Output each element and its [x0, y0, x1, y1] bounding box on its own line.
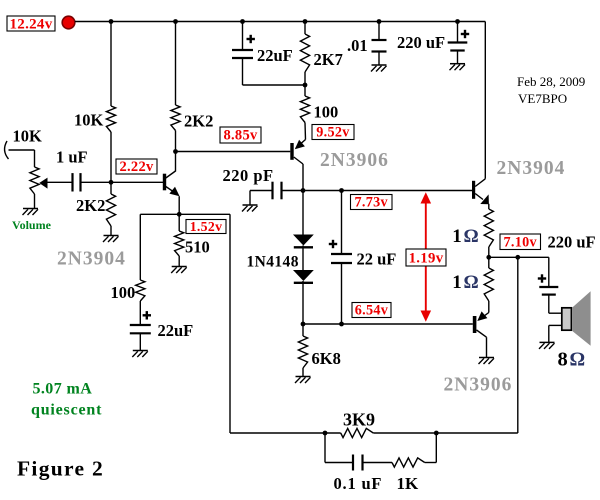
- wire 220uF to ground: [457, 51, 459, 64]
- svg-text:1.19v: 1.19v: [409, 250, 444, 266]
- svg-text:2N3906: 2N3906: [320, 150, 389, 171]
- wire 2K2 lower top lead: [110, 182, 112, 194]
- diode 1N4148 D1: [293, 235, 314, 246]
- wire Q1 emitter lead: [178, 196, 180, 214]
- wire emitter node right: [179, 213, 230, 215]
- wire 6K8 top lead: [302, 324, 304, 336]
- junction 2K7/100/22uF: [303, 83, 308, 88]
- svg-text:7.10v: 7.10v: [504, 234, 538, 250]
- svg-text:2K2: 2K2: [76, 196, 105, 215]
- wire Q3 collector to rail: [484, 22, 486, 179]
- resistor 2K2 (base bias lower): [106, 194, 115, 226]
- svg-text:.01: .01: [347, 36, 368, 55]
- svg-text:1: 1: [452, 272, 462, 293]
- resistor 100 (Q1 emitter bypass): [136, 280, 145, 301]
- svg-text:Figure 2: Figure 2: [17, 457, 104, 481]
- transistor Q2 base bar: [290, 143, 293, 160]
- capacitor 1uF coupling: [71, 173, 73, 191]
- svg-text:Volume: Volume: [12, 218, 52, 232]
- svg-text:Feb 28, 2009: Feb 28, 2009: [517, 74, 585, 89]
- diode 1N4148 D2: [293, 270, 314, 281]
- resistor 2K7: [300, 34, 309, 72]
- plus 22uF center: [329, 243, 337, 245]
- voltage label 1.52v: [186, 220, 226, 234]
- junction feedback left: [323, 431, 328, 436]
- svg-text:5.07 mA: 5.07 mA: [33, 381, 93, 398]
- transistor Q3 base bar: [472, 181, 475, 199]
- voltage label 1.19v: [406, 249, 446, 266]
- junction Q1 emitter node: [177, 212, 182, 217]
- ground 2K2 lower: [104, 235, 119, 237]
- svg-text:1.52v: 1.52v: [190, 219, 223, 234]
- resistor 1 Ohm lower: [484, 268, 493, 301]
- wire feedback bottom rail: [230, 432, 341, 434]
- ground speaker: [540, 341, 555, 343]
- ground 220uF top: [450, 63, 465, 65]
- wire 10K bottom lead: [110, 132, 112, 182]
- capacitor 22uF top plate lead: [242, 22, 244, 51]
- capacitor 22uF Q1 bypass: [130, 324, 151, 326]
- speaker cone: [573, 291, 591, 345]
- wire D2 to lower node: [302, 285, 304, 325]
- junction 220pF node: [301, 188, 306, 193]
- wire speaker bottom lead: [549, 324, 562, 326]
- wire top supply rail: [75, 21, 485, 23]
- wire feedback left vertical: [229, 214, 231, 433]
- wire Q2 emitter lead: [304, 123, 307, 140]
- junction Q1 collector node: [173, 149, 178, 154]
- transistor Q3 collector: [475, 179, 485, 187]
- voltage label 8.85v: [220, 127, 261, 143]
- speaker driver rect: [562, 308, 572, 330]
- voltage label 7.73v: [351, 195, 393, 210]
- potentiometer 10K body: [30, 167, 39, 194]
- wire 220pF ground lead: [249, 191, 251, 206]
- wire 2K2 bottom lead: [175, 131, 177, 152]
- wire 22uF bottom to junction: [242, 58, 244, 85]
- wire left branch down: [139, 214, 141, 280]
- capacitor 220pF: [271, 182, 273, 200]
- voltage label 7.10v: [500, 234, 541, 250]
- wire 6.54v rail: [303, 323, 473, 325]
- svg-text:7.73v: 7.73v: [355, 195, 389, 211]
- wire 2K2 collector-load top lead: [175, 22, 177, 106]
- ground 510: [172, 266, 187, 268]
- junction output node: [486, 255, 491, 260]
- svg-text:510: 510: [185, 238, 210, 257]
- wire 2K2 lower bottom lead: [110, 226, 112, 236]
- wire 510 bottom lead: [178, 256, 180, 267]
- transistor Q4 collector: [477, 330, 487, 337]
- wire 22uF center bottom lead: [341, 263, 343, 324]
- svg-text:1K: 1K: [397, 474, 420, 493]
- wire Q3 emitter lead: [488, 204, 490, 209]
- svg-text:Ω: Ω: [464, 226, 479, 247]
- wire .01 to ground: [378, 52, 380, 66]
- junction output/feedback: [515, 255, 520, 260]
- svg-text:6K8: 6K8: [312, 349, 341, 368]
- wire pot top lead: [9, 149, 35, 151]
- wire 10K top lead: [110, 22, 112, 107]
- resistor 1K: [392, 458, 425, 467]
- svg-text:2.22v: 2.22v: [119, 159, 154, 175]
- ground pot: [23, 208, 38, 210]
- wire D1 to D2: [302, 249, 304, 270]
- pot wiper arrow: [39, 178, 47, 189]
- junction top rail / 2K2: [173, 19, 178, 24]
- measure arrow 1.19v (red): [425, 199, 427, 315]
- svg-text:100: 100: [111, 283, 136, 302]
- wire wiper to 1uF: [48, 181, 73, 183]
- wire 7.73v rail: [303, 190, 472, 192]
- capacitor 22uF (2K7 bypass): [232, 49, 253, 51]
- junction top rail / 10K: [109, 19, 114, 24]
- wire 22uF left to ground: [139, 333, 141, 350]
- junction top rail / 220uF: [455, 19, 460, 24]
- wire 100 to 22uF: [139, 301, 141, 325]
- wire Q2 collector down: [302, 164, 304, 235]
- svg-text:1 uF: 1 uF: [56, 148, 88, 167]
- svg-text:2N3904: 2N3904: [57, 249, 126, 270]
- junction feedback right: [434, 431, 439, 436]
- wire 2K7 top lead: [304, 22, 306, 35]
- wire 1 Ohm lower top lead: [488, 257, 490, 268]
- svg-text:9.52v: 9.52v: [316, 125, 350, 141]
- wire 1uF to base node: [81, 181, 164, 183]
- svg-text:12.24v: 12.24v: [9, 16, 52, 32]
- svg-text:10K: 10K: [13, 127, 43, 146]
- capacitor .01: [372, 39, 387, 41]
- ground Q4: [479, 357, 494, 359]
- wire 22uF center top lead: [341, 191, 343, 255]
- svg-text:8.85v: 8.85v: [223, 128, 258, 144]
- svg-text:VE7BPO: VE7BPO: [518, 91, 567, 106]
- wire RC branch right: [425, 462, 437, 464]
- plus speaker cap: [538, 277, 546, 279]
- transistor Q1 base bar: [163, 174, 166, 191]
- plus 22uF top: [247, 38, 255, 40]
- resistor 510 Q1 emitter: [175, 231, 184, 256]
- wire feedback right vertical: [517, 257, 519, 433]
- transistor Q3 emitter: [475, 194, 483, 200]
- resistor 6K8: [298, 336, 307, 368]
- svg-text:22uF: 22uF: [158, 321, 194, 340]
- transistor Q2 emitter: [296, 140, 306, 148]
- capacitor 220uF supply: [448, 41, 468, 43]
- node V+ supply point (red dot): [62, 16, 75, 29]
- transistor Q1 collector: [166, 171, 176, 178]
- transistor Q2 collector: [294, 157, 303, 164]
- plus 220uF top: [461, 33, 469, 35]
- svg-text:220 pF: 220 pF: [223, 166, 274, 185]
- wire pot bottom lead: [34, 194, 36, 209]
- svg-text:10K: 10K: [74, 111, 104, 130]
- capacitor 22uF center: [331, 253, 352, 255]
- wire Q4 emitter lead: [488, 301, 490, 313]
- svg-text:220 uF: 220 uF: [397, 33, 445, 52]
- wire Q4 collector to ground: [486, 337, 488, 357]
- capacitor 0.1uF: [352, 455, 354, 471]
- wire RC branch left: [324, 433, 326, 463]
- wire cap to 1K: [363, 462, 393, 464]
- wire 510 top lead: [178, 214, 180, 231]
- svg-text:2N3904: 2N3904: [497, 158, 566, 179]
- transistor Q1 emitter: [166, 187, 177, 194]
- capacitor 220uF speaker: [539, 286, 558, 288]
- ground 22uF left: [133, 350, 148, 352]
- transistor Q4 emitter: [479, 313, 489, 320]
- svg-text:2N3906: 2N3906: [444, 375, 513, 396]
- transistor Q4 base bar: [473, 316, 477, 333]
- svg-text:Ω: Ω: [570, 350, 586, 371]
- resistor 2K2 (collector load): [171, 105, 180, 131]
- ground 6K8: [296, 376, 311, 378]
- wire 2K7 bottom lead: [304, 72, 306, 85]
- voltage label 6.54v: [352, 303, 391, 318]
- junction top rail / 22uF: [240, 19, 245, 24]
- wire 220uF top lead: [457, 22, 459, 43]
- svg-text:22 uF: 22 uF: [357, 250, 397, 269]
- svg-text:100: 100: [314, 103, 339, 122]
- svg-text:22uF: 22uF: [257, 46, 293, 65]
- svg-text:quiescent: quiescent: [31, 402, 102, 419]
- plus 22uF left: [143, 314, 151, 316]
- voltage label 9.52v: [312, 125, 354, 140]
- ground 220pF: [243, 204, 258, 206]
- svg-text:2K7: 2K7: [314, 50, 343, 69]
- resistor 3K9: [341, 428, 374, 437]
- wire .01 top lead: [378, 22, 380, 41]
- svg-text:Ω: Ω: [464, 272, 479, 293]
- resistor 100 (Q2 emitter): [300, 96, 309, 123]
- junction diode bottom node: [301, 322, 306, 327]
- svg-text:220 uF: 220 uF: [548, 233, 596, 252]
- voltage label 12.24v: [7, 16, 55, 31]
- junction 22uF center top: [339, 188, 344, 193]
- wire 100 top lead: [304, 85, 306, 96]
- junction base node Q1: [109, 180, 114, 185]
- svg-text:1N4148: 1N4148: [247, 254, 299, 271]
- junction top rail / 2K7: [303, 19, 308, 24]
- wire speaker cap top lead: [548, 257, 550, 287]
- svg-text:2K2: 2K2: [184, 112, 213, 131]
- wire 220pF to Q2 collector: [282, 190, 304, 192]
- ground .01: [372, 64, 387, 66]
- junction top rail / .01: [377, 19, 382, 24]
- svg-text:1: 1: [452, 226, 462, 247]
- junction 22uF center bottom: [339, 322, 344, 327]
- resistor 10K (bias upper): [106, 106, 115, 132]
- wire speaker cap bottom lead: [548, 295, 550, 314]
- voltage label 2.22v: [116, 159, 157, 174]
- resistor 1 Ohm upper: [484, 209, 493, 247]
- wire 1R to output node: [488, 247, 490, 257]
- svg-text:3K9: 3K9: [343, 410, 375, 430]
- svg-text:8: 8: [558, 349, 568, 371]
- svg-text:0.1 uF: 0.1 uF: [334, 474, 383, 493]
- wire output node right: [489, 256, 549, 258]
- wire Q1 collector to Q2 base: [176, 151, 291, 153]
- wire emitter node left: [140, 213, 179, 215]
- svg-text:6.54v: 6.54v: [355, 303, 389, 319]
- wire 6K8 bottom lead: [302, 368, 304, 377]
- wire pot top hook: [5, 141, 9, 159]
